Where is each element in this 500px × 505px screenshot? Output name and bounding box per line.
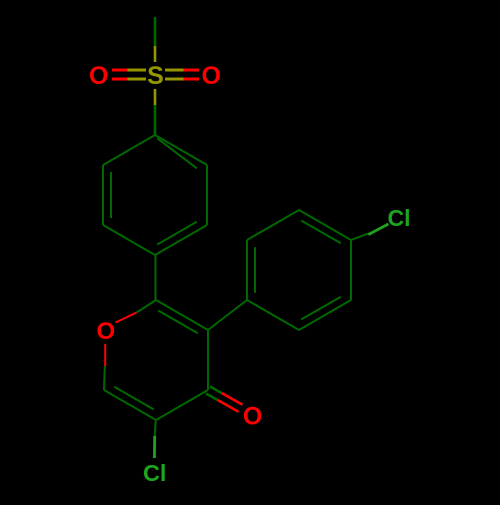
ring2 inner aromatic line bottom-right bbox=[301, 297, 341, 320]
ring1 inner aromatic line top-right bbox=[157, 138, 197, 168]
S=O double bond right (red halves) bbox=[184, 70, 200, 79]
O1-C2 bond carbon half bbox=[137, 300, 157, 313]
ring2 inner aromatic line top-right bbox=[301, 221, 341, 244]
O1-C2 bond red half bbox=[116, 313, 137, 323]
svg-text:O: O bbox=[243, 403, 262, 431]
wire: C3 to ring2 bond bbox=[208, 300, 247, 330]
S=O double bond left (red halves) bbox=[112, 70, 128, 79]
S=O double bond right (sulfur halves) bbox=[165, 70, 184, 79]
svg-text:S: S bbox=[147, 62, 164, 90]
ring1 inner aromatic line bottom-right bbox=[157, 222, 197, 245]
C2=C3 inner line bbox=[158, 311, 198, 334]
wire: ring1 to C2 bond bbox=[155, 255, 157, 300]
wire: C5-Cl bond (carbon half) bbox=[155, 420, 156, 436]
svg-text:O: O bbox=[201, 62, 220, 90]
C5=C6 bond main bbox=[104, 390, 156, 420]
pyranone ring bonds bbox=[104, 300, 208, 420]
C6-O1 bond red half bbox=[104, 344, 106, 366]
wire: S to ring1 bond (carbon half) bbox=[154, 105, 157, 135]
svg-text:O: O bbox=[96, 318, 115, 345]
wire: ring2-Cl bond (chlorine half) bbox=[368, 224, 388, 235]
svg-text:Cl: Cl bbox=[143, 460, 167, 486]
ring2 inner aromatic line left bbox=[254, 247, 256, 293]
wire: methyl C-S bond (sulfur half) bbox=[154, 46, 157, 62]
ring1 inner aromatic line left bbox=[110, 172, 112, 218]
C4-C5 bond bbox=[156, 390, 208, 420]
benzene ring 1 (methylsulfonylphenyl) bbox=[103, 135, 207, 255]
C5=C6 inner line bbox=[114, 387, 154, 410]
wire: methyl C-S bond (carbon half) bbox=[154, 17, 157, 46]
svg-text:Cl: Cl bbox=[388, 205, 411, 231]
C6-O1 bond carbon half bbox=[103, 366, 106, 390]
svg-text:O: O bbox=[89, 62, 108, 90]
S=O double bond left (sulfur halves) bbox=[128, 70, 147, 79]
C3-C4 bond bbox=[207, 330, 209, 390]
wire: S to ring1 bond (sulfur half) bbox=[154, 89, 157, 105]
benzene ring 2 (chlorophenyl) bbox=[247, 210, 351, 330]
ketone C4=O double bond bbox=[206, 387, 243, 412]
wire: C5-Cl bond (chlorine half) bbox=[153, 436, 156, 458]
wire: ring2-Cl bond (carbon half) bbox=[351, 234, 368, 240]
C2=C3 bond main bbox=[156, 300, 208, 330]
